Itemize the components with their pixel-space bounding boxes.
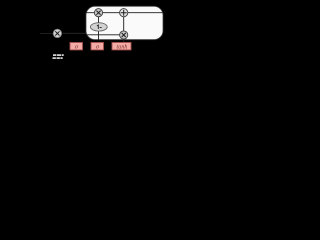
tanh box bbox=[112, 43, 131, 51]
multiply node B (inside cell, lower right) bbox=[120, 31, 128, 39]
sigma box 2 bbox=[91, 43, 104, 51]
add node (top right, on h line) bbox=[120, 9, 128, 17]
wire h tilde horizontal to multiply B bbox=[87, 34, 120, 36]
wire multiply B down to tanh box bbox=[123, 39, 125, 42]
svg-text:tanh: tanh bbox=[117, 45, 128, 51]
1- stadium bbox=[90, 23, 107, 31]
label text marks bottom left (h[t-1] / x[t]) bbox=[53, 54, 64, 59]
wire multiply A down to 1- stadium bbox=[98, 17, 100, 23]
wire 1- stadium down to cell bottom bbox=[98, 31, 100, 40]
wire h[t-1] into left multiply node (faint on black) bbox=[40, 32, 53, 34]
wire top line through multiply and add nodes bbox=[87, 12, 163, 14]
multiply node A (top, on h line) bbox=[94, 9, 102, 17]
wire add node down to multiply B bbox=[123, 17, 125, 31]
multiply node C (outside cell, left) bbox=[53, 29, 61, 37]
wire from left multiply node to cell bbox=[62, 32, 86, 34]
sigma box 1 bbox=[70, 43, 83, 51]
GRU cell body bbox=[86, 6, 163, 40]
